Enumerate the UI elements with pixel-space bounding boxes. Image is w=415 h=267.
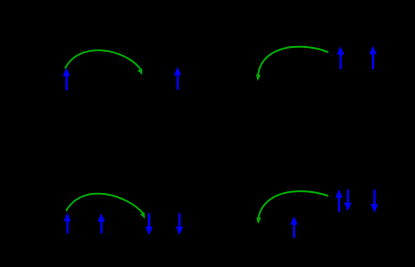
green hopping-back arrow arc, bottom-right panel (electron returns to left site)	[256, 191, 327, 224]
blue spin-up electron arrow, top-left panel, left site	[63, 68, 70, 91]
blue spin-down electron arrow, bottom-right panel, doubly occupied orbital (pair, down)	[344, 190, 351, 211]
blue spin-up electron arrow, bottom-left panel, left site orbital 1	[64, 213, 71, 233]
blue spin-up electron arrow, top-right panel, raised level orbital 2	[369, 46, 376, 69]
blue spin-up electron arrow, bottom-left panel, left site orbital 2	[98, 213, 105, 233]
blue spin-up electron arrow, bottom-right panel, left site lower level	[290, 216, 297, 238]
green hopping arrow arc, bottom-left panel (electron transfer to right site)	[66, 194, 145, 219]
green hopping-back arrow arc, top-right panel (electron returns to empty left site)	[256, 47, 328, 81]
blue spin-down electron arrow, bottom-left panel, right site orbital 1	[145, 213, 152, 235]
green hopping arrow arc, top-left panel (electron transfer left site to right site)	[65, 50, 142, 75]
blue spin-up electron arrow, bottom-right panel, doubly occupied orbital (pair, up)	[335, 189, 342, 212]
blue spin-down electron arrow, bottom-right panel, raised level orbital 2	[371, 190, 378, 213]
blue spin-up electron arrow, top-left panel, right site	[174, 67, 181, 90]
blue spin-down electron arrow, bottom-left panel, right site orbital 2	[176, 213, 183, 235]
blue spin-up electron arrow, top-right panel, raised level orbital 1	[337, 46, 344, 69]
